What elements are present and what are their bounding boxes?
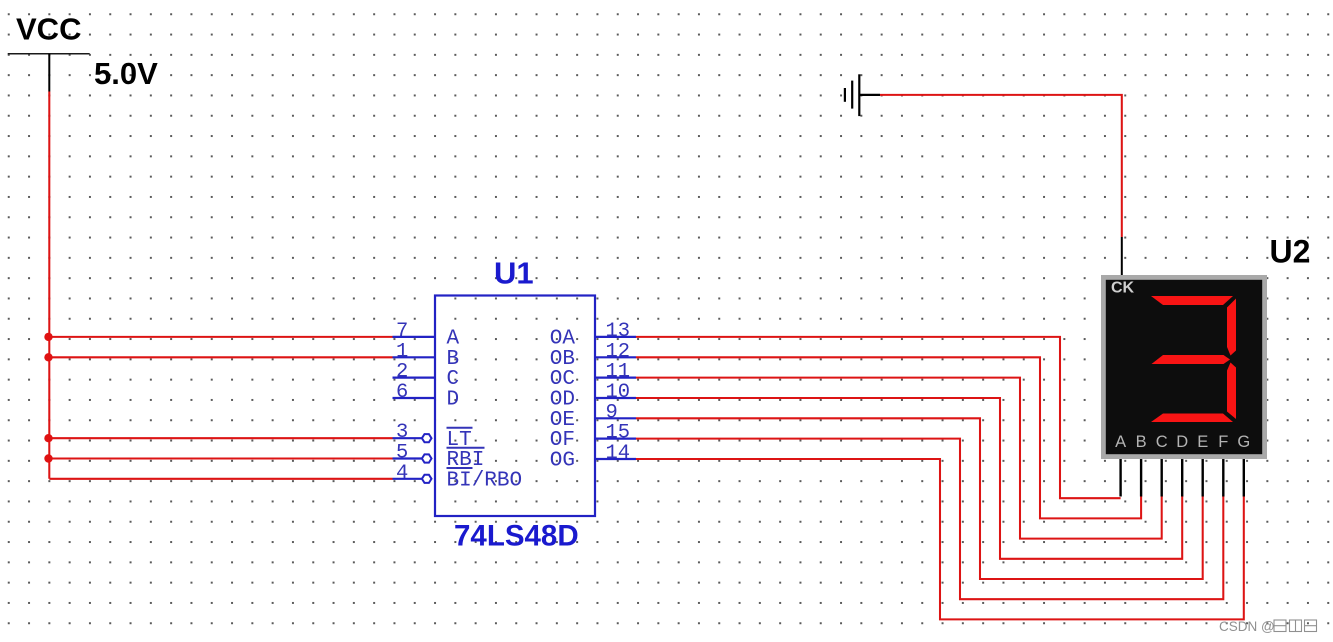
svg-text:74LS48D: 74LS48D [454, 520, 579, 553]
svg-text:OG: OG [550, 450, 575, 473]
chip U1 body [435, 296, 595, 517]
wire OG to U2 G [636, 459, 1244, 619]
svg-text:D: D [1176, 433, 1188, 451]
wire VCC vertical net [48, 92, 50, 479]
pin stub BI/RBO (4) with bubble [393, 478, 423, 480]
pin stub D (6) [393, 397, 436, 399]
pin stub OC (11) [595, 377, 636, 379]
display U2 body frame [1101, 275, 1267, 459]
wire OD to U2 D [636, 398, 1182, 559]
display U2 pin leads A-G [1121, 459, 1244, 497]
svg-text:D: D [447, 389, 460, 412]
pin stub B (1) [393, 356, 436, 358]
pin stub LT (3) with bubble [393, 437, 423, 439]
pin name LT with overline [447, 428, 473, 452]
svg-text:CK: CK [1111, 280, 1135, 297]
pin name RBI with overline [447, 448, 485, 472]
display pin letters A-G [1115, 433, 1250, 451]
pin stub RBI (5) with bubble [393, 457, 423, 459]
svg-text:A: A [1115, 433, 1126, 451]
wire OB to U2 B [636, 357, 1141, 518]
segment B (top right) [1227, 299, 1236, 356]
svg-text:U2: U2 [1270, 234, 1311, 270]
wire OC to U2 C [636, 378, 1162, 539]
svg-text:U1: U1 [494, 256, 534, 291]
svg-text:G: G [1237, 433, 1250, 451]
pin stub OF (15) [595, 438, 636, 440]
svg-text:4: 4 [396, 462, 408, 485]
pin name BI/RBO with overline on BI [447, 468, 523, 493]
segment D (bottom) [1151, 414, 1233, 423]
svg-text:F: F [1218, 433, 1228, 451]
junction dot B [44, 353, 52, 361]
wire ground to U2 CK [880, 95, 1122, 237]
pin stub OG (14) [595, 458, 636, 460]
svg-text:BI/RBO: BI/RBO [447, 470, 523, 493]
ground symbol [845, 74, 880, 116]
svg-text:C: C [1156, 433, 1168, 451]
power symbol VCC [8, 54, 90, 92]
svg-text:B: B [1136, 433, 1147, 451]
svg-text:6: 6 [396, 381, 408, 404]
wire OA to U2 A [636, 337, 1121, 498]
pin stub OD (10) [595, 397, 636, 399]
U2 CK pin lead [1121, 237, 1123, 276]
wire to U1 pin LT [49, 437, 392, 439]
wire OF to U2 F [636, 439, 1223, 600]
wire to U1 pin B [49, 356, 392, 358]
pin stub OB (12) [595, 356, 636, 358]
svg-text:5.0V: 5.0V [94, 56, 158, 91]
watermark CSDN [1219, 619, 1317, 634]
pin stub OA (13) [595, 336, 636, 338]
segment G (middle) [1152, 355, 1231, 364]
pin stub OE (9) [595, 417, 636, 419]
segment C (bottom right) [1227, 363, 1236, 420]
wire to U1 pin BI/RBO [49, 478, 392, 480]
junction dot LT [44, 434, 52, 442]
svg-text:E: E [1197, 433, 1208, 451]
junction dot A [44, 333, 52, 341]
junction dot RBI [44, 454, 52, 462]
svg-text:VCC: VCC [16, 12, 81, 47]
segment A (top) [1151, 296, 1233, 305]
pin stub C (2) [393, 377, 436, 379]
svg-text:14: 14 [606, 442, 631, 465]
wire to U1 pin RBI [49, 457, 392, 459]
wire to U1 pin A [49, 336, 392, 338]
pin stub A (7) [393, 336, 436, 338]
svg-text:CSDN @: CSDN @ [1219, 619, 1275, 634]
wire OE to U2 E [636, 418, 1203, 579]
